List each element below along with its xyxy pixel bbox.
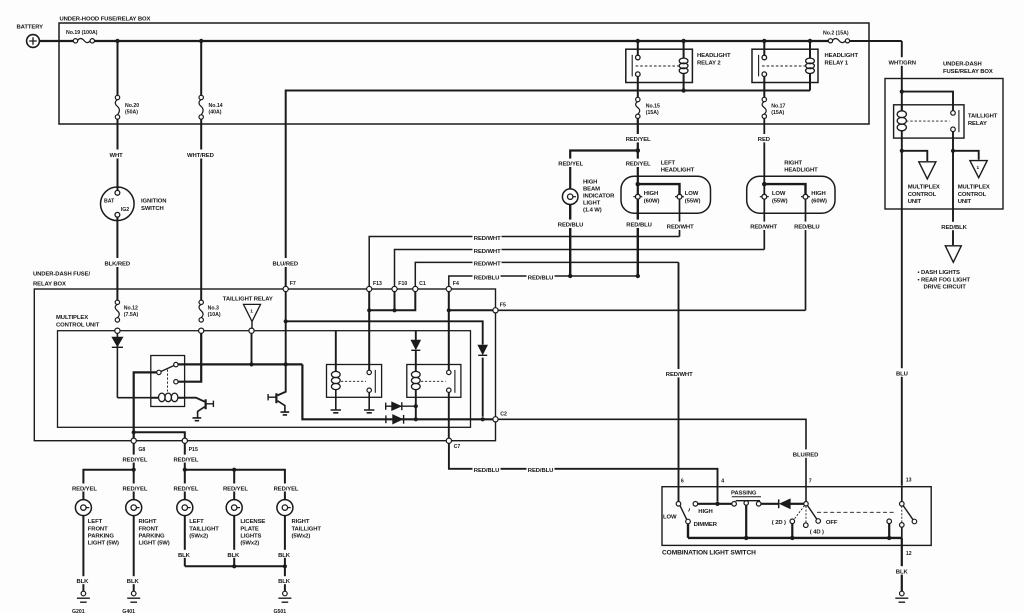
wire BLK license plate to bus bbox=[233, 516, 235, 567]
svg-text:LIGHT (5W): LIGHT (5W) bbox=[139, 541, 170, 547]
svg-text:RED/YEL: RED/YEL bbox=[274, 487, 299, 493]
node row4/left HIGH bbox=[636, 274, 640, 278]
svg-text:No.15: No.15 bbox=[646, 104, 660, 110]
wire down to left taillight bbox=[184, 470, 186, 500]
svg-text:HEADLIGHT: HEADLIGHT bbox=[697, 53, 731, 59]
svg-text:BLU/RED: BLU/RED bbox=[273, 262, 298, 268]
svg-text:(7.5A): (7.5A) bbox=[124, 312, 139, 318]
wire BLK pin 12 to ground bbox=[901, 538, 903, 591]
svg-text:HIGH: HIGH bbox=[811, 191, 825, 197]
svg-text:RED/YEL: RED/YEL bbox=[223, 487, 248, 493]
connector F4 bbox=[446, 286, 451, 291]
svg-text:F13: F13 bbox=[373, 281, 382, 287]
svg-text:RELAY 1: RELAY 1 bbox=[825, 61, 849, 67]
ground G551 bbox=[900, 591, 905, 596]
svg-text:No.2 (15A): No.2 (15A) bbox=[823, 30, 849, 36]
wire BLK left front parking to ground bbox=[82, 516, 84, 592]
svg-text:BLK: BLK bbox=[127, 579, 140, 585]
node diode column on C2 line bbox=[481, 417, 485, 421]
relay1 dashed link bbox=[762, 65, 805, 67]
wire link bar to LOW bbox=[638, 184, 680, 194]
svg-text:F10: F10 bbox=[398, 281, 407, 287]
svg-text:INDICATOR: INDICATOR bbox=[583, 194, 615, 200]
svg-text:No.19 (100A): No.19 (100A) bbox=[66, 30, 98, 36]
wire row1 RED/WHT (left LOW to F13) bbox=[369, 237, 679, 287]
wire RED/BLU indicator down to row4 bbox=[569, 205, 571, 277]
node triangle feed bbox=[249, 362, 253, 366]
svg-text:HIGH: HIGH bbox=[644, 191, 658, 197]
connector F7 bbox=[283, 286, 288, 291]
arrow to dash lights bbox=[945, 246, 961, 262]
svg-text:G501: G501 bbox=[274, 609, 287, 613]
svg-text:CONTROL UNIT: CONTROL UNIT bbox=[56, 322, 100, 328]
svg-text:BLK: BLK bbox=[896, 569, 909, 575]
main bus wire bbox=[95, 40, 829, 42]
svg-text:(15A): (15A) bbox=[771, 110, 784, 116]
wire to left front parking light bbox=[71, 484, 97, 492]
svg-text:No.12: No.12 bbox=[124, 306, 138, 312]
wire passing to diode bbox=[761, 503, 779, 505]
wire tap to high beam indicator bbox=[570, 151, 638, 189]
svg-text:TAILLIGHT: TAILLIGHT bbox=[968, 113, 998, 119]
svg-text:4: 4 bbox=[721, 479, 724, 485]
fuse No.17 (15A) bbox=[762, 97, 766, 101]
svg-text:BLU: BLU bbox=[896, 372, 908, 378]
svg-text:(5Wx2): (5Wx2) bbox=[292, 533, 311, 539]
wire BLK left taillight to bus bbox=[184, 516, 186, 567]
wire F13 down to relay A contact bbox=[368, 310, 370, 370]
svg-text:RELAY: RELAY bbox=[968, 121, 987, 127]
svg-text:(60W): (60W) bbox=[811, 198, 827, 204]
svg-text:FUSE/RELAY BOX: FUSE/RELAY BOX bbox=[943, 69, 993, 75]
svg-text:(55W): (55W) bbox=[772, 198, 788, 204]
svg-text:LIGHT (5W): LIGHT (5W) bbox=[88, 541, 119, 547]
bulb license plate lights bbox=[226, 500, 242, 516]
wire RED fuse No.17 to right headlight bbox=[763, 119, 765, 195]
wire to multiplex arrow left bbox=[902, 151, 928, 161]
svg-text:BLK/RED: BLK/RED bbox=[105, 262, 130, 268]
node WHT/GRN branch bbox=[900, 90, 904, 94]
dimmer switch LOW pivot bbox=[676, 502, 681, 507]
svg-text:BLK: BLK bbox=[278, 553, 291, 559]
wire WHT fuse No.20 to ignition switch bbox=[117, 119, 119, 190]
internal relay A box bbox=[327, 365, 382, 398]
svg-text:RED/BLU: RED/BLU bbox=[528, 275, 553, 281]
svg-text:LIGHT: LIGHT bbox=[583, 201, 601, 207]
svg-text:SWITCH: SWITCH bbox=[141, 206, 164, 212]
svg-text:12: 12 bbox=[906, 551, 912, 557]
wire relay B contact to C7 bbox=[448, 392, 450, 438]
svg-text:LOW: LOW bbox=[772, 191, 786, 197]
svg-text:RELAY BOX: RELAY BOX bbox=[33, 281, 66, 287]
relay A coil bbox=[335, 331, 337, 372]
connector F13 bbox=[367, 286, 372, 291]
svg-text:RED/YEL: RED/YEL bbox=[626, 162, 651, 168]
right headlight box bbox=[747, 176, 835, 213]
node bus/relay2 coil bbox=[681, 39, 685, 43]
wire F7 down to multiplex node bbox=[285, 321, 287, 364]
wire BLK right taillight down bbox=[284, 516, 286, 592]
dimmer contact bbox=[686, 519, 691, 524]
multiplex control unit inner box bbox=[58, 331, 471, 428]
4D contact bbox=[805, 506, 807, 523]
HIGH contact bbox=[693, 502, 698, 507]
svg-text:( 4D ): ( 4D ) bbox=[810, 530, 824, 536]
wire down to right front parking light bbox=[133, 470, 135, 500]
wire link bar to right HIGH bbox=[764, 184, 805, 194]
node contact bottom branch bbox=[951, 149, 955, 153]
wire BLK right front parking to ground bbox=[133, 516, 135, 592]
ignition switch bbox=[101, 187, 135, 221]
svg-text:HEADLIGHT: HEADLIGHT bbox=[825, 53, 859, 59]
lighting switch arm contact bbox=[912, 519, 917, 524]
connector G8 bbox=[131, 438, 136, 443]
wire C7 to combination switch pin 4 bbox=[449, 443, 718, 501]
svg-text:BEAM: BEAM bbox=[583, 186, 600, 192]
fuse No.2 (15A) bbox=[828, 39, 832, 43]
svg-text:WHT/RED: WHT/RED bbox=[187, 153, 214, 159]
internal relay B box bbox=[407, 365, 461, 398]
svg-text:BLK: BLK bbox=[227, 553, 240, 559]
lighting switch contact left bbox=[887, 519, 892, 524]
MR1 contacts bbox=[157, 370, 161, 374]
bulb left LOW (55W) bbox=[677, 194, 682, 199]
wire down to right taillight bbox=[273, 484, 299, 492]
relay B contacts bbox=[447, 370, 451, 374]
wire bus to fuse No.20 bbox=[117, 41, 119, 95]
node row4/indicator bbox=[568, 274, 572, 278]
node coil line / relay2 coil bbox=[681, 88, 685, 92]
svg-text:No.20: No.20 bbox=[125, 103, 139, 109]
node bus/No.14 bbox=[199, 39, 203, 43]
svg-text:CONTROL: CONTROL bbox=[958, 192, 987, 198]
wire RED/WHT left LOW down to row1 bbox=[679, 199, 681, 236]
switch ground bus bbox=[688, 524, 902, 538]
svg-text:RIGHT: RIGHT bbox=[784, 160, 802, 166]
svg-text:UNDER-DASH FUSE/: UNDER-DASH FUSE/ bbox=[33, 271, 90, 277]
svg-text:BLU/RED: BLU/RED bbox=[793, 452, 818, 458]
svg-text:BLK: BLK bbox=[278, 579, 291, 585]
node left headlight feed bbox=[636, 182, 641, 187]
svg-text:RIGHT: RIGHT bbox=[292, 519, 310, 525]
svg-text:(15A): (15A) bbox=[646, 110, 659, 116]
svg-text:RED/YEL: RED/YEL bbox=[72, 487, 97, 493]
wire F7 to C2 diode branch bbox=[286, 292, 483, 417]
transistor T1 bbox=[185, 398, 205, 402]
wire BLU taillight relay coil to pin 13 bbox=[901, 131, 903, 486]
MR1 coil bbox=[151, 397, 185, 399]
svg-text:UNIT: UNIT bbox=[908, 199, 922, 205]
svg-text:PLATE: PLATE bbox=[240, 526, 259, 532]
wire MR1 top contact to multiplex node bbox=[178, 363, 302, 365]
connector C7 bbox=[446, 438, 451, 443]
fuse No.19 (100A) bbox=[73, 39, 77, 43]
svg-text:DRIVE CIRCUIT: DRIVE CIRCUIT bbox=[924, 285, 967, 291]
svg-text:(10A): (10A) bbox=[208, 312, 221, 318]
svg-text:C1: C1 bbox=[419, 281, 426, 287]
svg-text:LOW: LOW bbox=[663, 514, 677, 520]
svg-text:RED/BLU: RED/BLU bbox=[528, 468, 553, 474]
wire row3 RED/WHT (C1 to dimmer pin 6) bbox=[415, 262, 678, 286]
svg-text:(55W): (55W) bbox=[685, 198, 701, 204]
svg-text:(5Wx2): (5Wx2) bbox=[189, 533, 208, 539]
under-hood fuse/relay box bbox=[59, 23, 869, 124]
ground G401 bbox=[131, 591, 136, 596]
svg-text:RED/YEL: RED/YEL bbox=[174, 458, 199, 464]
svg-text:(5Wx2): (5Wx2) bbox=[240, 541, 259, 547]
bulb left front parking light bbox=[75, 500, 91, 516]
wire RED/BLU left HIGH down to row4 bbox=[637, 199, 639, 276]
svg-text:1: 1 bbox=[977, 165, 980, 171]
svg-text:F5: F5 bbox=[500, 302, 506, 308]
wire RED/WHT right LOW down to row2 bbox=[763, 199, 765, 249]
svg-text:No.17: No.17 bbox=[771, 104, 785, 110]
wire F4 to F5 bbox=[449, 292, 493, 311]
wire to multiplex arrow right bbox=[953, 151, 979, 160]
node coil bottom branch bbox=[900, 149, 904, 153]
svg-text:BLK: BLK bbox=[178, 553, 191, 559]
svg-text:RED/YEL: RED/YEL bbox=[174, 487, 199, 493]
svg-text:DIMMER: DIMMER bbox=[694, 522, 718, 528]
svg-text:HEADLIGHT: HEADLIGHT bbox=[784, 168, 818, 174]
svg-text:RED/BLU: RED/BLU bbox=[474, 275, 499, 281]
headlight relay 1 box bbox=[752, 49, 818, 82]
svg-text:RED/BLU: RED/BLU bbox=[558, 223, 583, 229]
taillight relay coil bbox=[901, 105, 903, 111]
relay1 coil bbox=[809, 41, 811, 91]
wire row2 RED/WHT (right LOW to F10) bbox=[395, 250, 765, 287]
taillight relay contacts bbox=[951, 111, 956, 116]
node RED/YEL tap bbox=[636, 148, 641, 153]
svg-text:CONTROL: CONTROL bbox=[908, 192, 937, 198]
wire battery to fuse No.19 bbox=[39, 40, 73, 42]
wire row4 RED/BLU (F4 to high beams) bbox=[449, 276, 638, 286]
wire F13 F10 C1 internal bus bbox=[369, 292, 415, 311]
bulb right HIGH (60W) bbox=[803, 194, 808, 199]
svg-text:LIGHTS: LIGHTS bbox=[240, 533, 261, 539]
svg-text:RED/WHT: RED/WHT bbox=[474, 236, 501, 242]
svg-text:IG2: IG2 bbox=[121, 207, 129, 213]
svg-text:RED/WHT: RED/WHT bbox=[750, 225, 777, 231]
left headlight box bbox=[621, 176, 711, 213]
wire F4 down to relay B contact bbox=[448, 310, 450, 370]
combination light switch box bbox=[662, 487, 931, 546]
svg-text:MULTIPLEX: MULTIPLEX bbox=[908, 185, 940, 191]
diode F7-C2 bbox=[478, 345, 487, 354]
svg-text:FRONT: FRONT bbox=[139, 526, 159, 532]
svg-text:TAILLIGHT RELAY: TAILLIGHT RELAY bbox=[223, 297, 273, 303]
svg-text:UNIT: UNIT bbox=[958, 199, 972, 205]
node multiplex center bbox=[284, 362, 288, 366]
svg-text:RED/WHT: RED/WHT bbox=[667, 225, 694, 231]
svg-text:BAT: BAT bbox=[104, 199, 115, 205]
wire HIGH contact to passing bbox=[698, 503, 732, 505]
bulb right taillight bbox=[277, 500, 293, 516]
diode passing bbox=[778, 499, 780, 508]
svg-text:6: 6 bbox=[681, 479, 684, 485]
wire RED/BLU right HIGH down to F5 line bbox=[805, 199, 807, 310]
svg-text:G201: G201 bbox=[72, 609, 85, 613]
svg-text:FRONT: FRONT bbox=[88, 526, 108, 532]
wire branch to taillight relay contact bbox=[902, 92, 953, 111]
node bus/relay1 contact bbox=[762, 39, 766, 43]
node right headlight feed bbox=[762, 182, 767, 187]
svg-text:BATTERY: BATTERY bbox=[17, 25, 44, 31]
svg-text:• DASH LIGHTS: • DASH LIGHTS bbox=[918, 270, 960, 276]
connector F5 bbox=[493, 308, 498, 313]
svg-text:PARKING: PARKING bbox=[88, 533, 115, 539]
svg-text:OFF: OFF bbox=[826, 520, 838, 526]
svg-text:RED/YEL: RED/YEL bbox=[123, 487, 148, 493]
wire fuse No.3 to MR1 lower contact bbox=[178, 333, 201, 381]
diode 1 to relay B coil bbox=[386, 403, 414, 410]
svg-text:RELAY 2: RELAY 2 bbox=[697, 61, 721, 67]
wire RED/YEL fuse No.15 to left headlight bbox=[637, 119, 639, 195]
bulb right LOW (55W) bbox=[762, 194, 767, 199]
internal relay MR1 box bbox=[151, 356, 185, 407]
svg-text:P15: P15 bbox=[189, 447, 198, 453]
svg-text:TAILLIGHT: TAILLIGHT bbox=[189, 526, 219, 532]
relay B coil feed diode bbox=[415, 331, 417, 340]
fuse No.15 (15A) bbox=[636, 97, 640, 101]
fuse No.20 (50A) bbox=[115, 95, 119, 99]
svg-text:TAILLIGHT: TAILLIGHT bbox=[292, 526, 322, 532]
relay2 coil bbox=[683, 41, 685, 91]
battery bbox=[27, 35, 40, 48]
wire F5 to right headlight HIGH bbox=[498, 309, 805, 311]
connector fuse3 on inner box bbox=[199, 328, 204, 333]
wire C2 to combination switch pin 7 bbox=[498, 419, 806, 501]
relay2 dashed link bbox=[636, 65, 679, 67]
bulb right front parking light bbox=[126, 500, 142, 516]
fuse No.14 (40A) bbox=[200, 41, 202, 95]
diode under fuse No.12 bbox=[116, 333, 118, 397]
svg-text:MULTIPLEX: MULTIPLEX bbox=[56, 315, 88, 321]
svg-text:(1.4 W): (1.4 W) bbox=[583, 208, 602, 214]
transistor T2 bbox=[278, 364, 286, 395]
svg-text:LICENSE: LICENSE bbox=[240, 519, 265, 525]
svg-text:7: 7 bbox=[809, 479, 812, 485]
svg-text:HIGH: HIGH bbox=[583, 179, 597, 185]
ground G201 bbox=[81, 591, 86, 596]
svg-text:No.14: No.14 bbox=[209, 103, 223, 109]
svg-text:WHT: WHT bbox=[110, 153, 124, 159]
connector fuse12 on inner box bbox=[115, 328, 120, 333]
wire G8 RED/YEL distribution bbox=[83, 443, 133, 500]
multiplex control unit arrow left bbox=[919, 162, 936, 179]
svg-text:LOW: LOW bbox=[685, 191, 699, 197]
svg-text:RED/YEL: RED/YEL bbox=[123, 458, 148, 464]
node bus/No.20 bbox=[115, 39, 119, 43]
wire passing pivot to bus bbox=[745, 505, 747, 538]
svg-text:PASSING: PASSING bbox=[731, 490, 757, 496]
diode 2 on C2 line bbox=[385, 415, 387, 423]
svg-text:1: 1 bbox=[250, 309, 253, 315]
wire diode to MR1 coil bbox=[117, 397, 150, 399]
svg-text:(40A): (40A) bbox=[209, 110, 222, 116]
svg-text:(60W): (60W) bbox=[644, 198, 660, 204]
headlight relay 2 box bbox=[626, 49, 693, 82]
connector F10 bbox=[392, 286, 397, 291]
svg-text:HIGH: HIGH bbox=[698, 509, 712, 515]
wire P15 RED/YEL distribution bbox=[185, 443, 285, 500]
svg-text:( 2D ): ( 2D ) bbox=[772, 520, 786, 526]
connector P15 bbox=[182, 438, 187, 443]
svg-text:RED/BLU: RED/BLU bbox=[626, 223, 651, 229]
wire RED/BLK taillight relay contact down bbox=[952, 132, 954, 245]
svg-text:UNDER-DASH: UNDER-DASH bbox=[943, 62, 982, 68]
svg-text:BLK: BLK bbox=[77, 579, 90, 585]
wire BLK/RED ignition to fuse No.12 bbox=[116, 217, 118, 300]
wire BLK joining bus taillights bbox=[185, 565, 285, 567]
svg-text:RED/BLU: RED/BLU bbox=[794, 225, 819, 231]
svg-text:COMBINATION LIGHT SWITCH: COMBINATION LIGHT SWITCH bbox=[662, 550, 756, 557]
svg-text:(50A): (50A) bbox=[125, 110, 138, 116]
under-dash fuse/relay box bbox=[34, 289, 495, 441]
node bus/relay2 contact bbox=[636, 39, 640, 43]
svg-text:LEFT: LEFT bbox=[88, 519, 103, 525]
svg-text:13: 13 bbox=[906, 478, 912, 484]
svg-text:MULTIPLEX: MULTIPLEX bbox=[958, 185, 990, 191]
connector C2 bbox=[493, 417, 498, 422]
svg-text:RIGHT: RIGHT bbox=[139, 519, 157, 525]
wire down to license plate lights bbox=[233, 470, 235, 500]
multiplex control unit arrow right bbox=[970, 161, 987, 178]
off contact bbox=[816, 519, 821, 524]
bulb left HIGH (60W) bbox=[635, 194, 640, 199]
svg-text:RED/WHT: RED/WHT bbox=[666, 372, 693, 378]
wire MR1 left contact to G8 and P15 bbox=[134, 372, 157, 438]
ground G501 bbox=[283, 591, 288, 596]
svg-text:HEADLIGHT: HEADLIGHT bbox=[661, 168, 695, 174]
taillight relay box bbox=[894, 105, 964, 138]
svg-text:C2: C2 bbox=[500, 411, 507, 417]
lighting switch pivot pin 13 bbox=[901, 487, 903, 502]
wire 2D contact to bus bbox=[791, 524, 793, 538]
fuse No.3 (10A) bbox=[199, 300, 203, 304]
wire multiplex node to C2 line bbox=[302, 364, 493, 419]
wire WHT/RED fuse No.14 to fuse No.3 bbox=[200, 119, 202, 300]
relay B coil bbox=[411, 371, 420, 377]
high beam indicator light bulb bbox=[562, 189, 578, 205]
svg-text:RED: RED bbox=[758, 137, 770, 143]
svg-text:F4: F4 bbox=[453, 281, 459, 287]
wire fuse No.2 to WHT/GRN corner bbox=[850, 40, 902, 42]
wire taillight relay connector down bbox=[249, 328, 254, 333]
relay2 contact bbox=[637, 41, 639, 55]
svg-text:RED/BLK: RED/BLK bbox=[941, 225, 967, 231]
under-dash fuse/relay box right bbox=[885, 79, 1003, 210]
svg-text:RED/WHT: RED/WHT bbox=[474, 249, 501, 255]
svg-text:F7: F7 bbox=[290, 281, 296, 287]
svg-text:No.3: No.3 bbox=[208, 306, 219, 312]
svg-text:G8: G8 bbox=[138, 447, 145, 453]
relay1 contact bbox=[763, 41, 765, 55]
svg-text:• REAR FOG LIGHT: • REAR FOG LIGHT bbox=[918, 277, 971, 283]
svg-text:G401: G401 bbox=[122, 609, 135, 613]
svg-text:WHT/GRN: WHT/GRN bbox=[889, 61, 916, 67]
MR1 dashed link bbox=[167, 370, 169, 392]
bulb left taillight bbox=[177, 500, 193, 516]
off switch pivot bbox=[804, 502, 808, 506]
wire BLU/RED coil line to F7 bbox=[271, 258, 300, 267]
lighting switch contact center bbox=[901, 506, 903, 523]
svg-text:LEFT: LEFT bbox=[189, 519, 204, 525]
wire WHT/GRN fuse No.2 down bbox=[901, 41, 903, 111]
svg-text:RED/BLU: RED/BLU bbox=[474, 468, 499, 474]
svg-text:UNDER-HOOD FUSE/RELAY BOX: UNDER-HOOD FUSE/RELAY BOX bbox=[60, 17, 151, 23]
fuse No.12 (7.5A) bbox=[115, 300, 119, 304]
